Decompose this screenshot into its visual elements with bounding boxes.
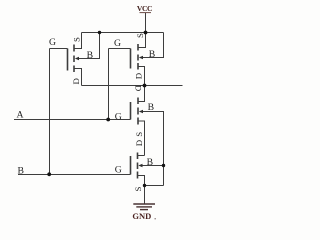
transistor M4 body channel bar [137,163,139,170]
svg-text:S: S [134,132,144,137]
transistor M1 body channel bar [73,56,75,63]
wire: M1 source lead up to rail [75,33,82,50]
junction dot: M3/M4 body tie node [162,164,165,167]
svg-text:D: D [134,73,144,79]
wire: M1 drain lead down [75,68,82,86]
svg-text:S: S [133,186,143,191]
arrow: M4 body terminal [138,164,142,168]
wire: M4 drain lead [138,155,145,157]
transistor M3 body channel bar [137,108,139,115]
svg-text:G: G [114,38,121,49]
junction dot: VCC on rail [144,31,148,35]
transistor M3 drain channel bar [137,98,139,105]
wire: VCC supply drop [145,13,147,33]
wire: M2 body tie loop to rail [143,33,164,59]
svg-text:S: S [135,33,145,38]
svg-text:G: G [49,37,56,48]
transistor M2 drain channel bar [137,63,139,70]
svg-text:D: D [71,78,81,84]
transistor M2 body channel bar [137,55,139,61]
transistor M1 source channel bar [73,45,75,52]
wire: M2 drain lead down to output [139,66,145,86]
svg-text:VCC: VCC [137,4,152,13]
wire: M1 gate feed down to B input [49,49,51,175]
transistor M2 source channel bar [137,44,139,51]
wire: M1 gate lead [50,48,68,50]
ground symbol [133,204,155,210]
wire: M3 source lead down to M4 drain [139,121,145,156]
transistor M1 drain channel bar [73,66,75,73]
transistor M3 source channel bar [137,118,139,125]
transistor M4 gate plate [130,156,132,175]
transistor M4 drain channel bar [137,153,139,160]
wire: M2 source lead up to VCC dot [139,33,146,49]
junction dot: input B node [47,172,51,176]
wire: M3 drain lead up to output [139,86,145,103]
arrow: M1 body terminal [75,57,79,61]
transistor M1 gate plate [67,49,69,71]
transistor M4 source channel bar [137,172,139,179]
junction dot: M1 body tie on rail [98,31,101,34]
junction dot: input A node [106,118,110,122]
svg-text:S: S [72,37,82,42]
svg-text:GND: GND [132,211,151,221]
svg-text:D: D [134,140,144,146]
svg-text:A: A [17,109,24,120]
wire: output line Y [82,85,183,87]
transistor M2 gate plate [130,49,132,69]
svg-text:B: B [17,165,23,176]
svg-text:B: B [87,50,93,61]
svg-text:D: D [134,85,144,91]
wire: top rail VCC net [82,32,164,34]
wire: input B line [18,174,131,176]
arrow: M2 body terminal [139,56,143,60]
wire: M4 source lead down to ground [138,175,145,204]
wire: M1 body tie up to rail [79,33,100,60]
svg-text:B: B [148,102,154,113]
junction dot: source-ground node [143,184,146,187]
svg-text:G: G [115,165,122,176]
transistor M3 gate plate [130,102,132,120]
wire: input A line [14,119,131,121]
svg-text:B: B [147,157,153,168]
arrow: M3 body terminal [139,110,143,114]
wire: M2 gate lead [109,48,131,50]
speck right of GND [155,218,156,219]
wire: M3 body tie down [143,111,164,166]
svg-text:G: G [115,112,122,123]
wire: M2 gate feed down to A input [108,49,110,120]
label VCC underline [140,12,152,13]
junction dot: output node [143,84,147,88]
svg-text:B: B [149,49,155,60]
wire: M4 body tie to source net [142,165,164,186]
